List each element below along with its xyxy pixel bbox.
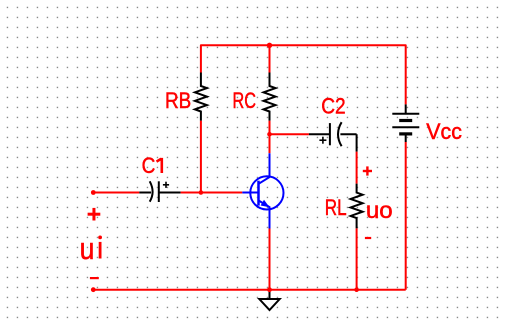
resistor RB — [195, 73, 207, 121]
wire bottom rail — [93, 289, 405, 291]
resistor RL — [351, 184, 363, 229]
svg-text:RC: RC — [233, 88, 257, 113]
svg-text:RL: RL — [325, 195, 347, 220]
wire RC bottom to collector node — [269, 121, 271, 135]
svg-text:C2: C2 — [321, 94, 345, 119]
wire C2 output to RL top — [356, 152, 358, 184]
transistor Q1 — [242, 153, 283, 228]
wire input terminal to C1 — [93, 192, 139, 194]
battery Vcc — [392, 104, 419, 142]
node top rail RC junction — [267, 43, 272, 48]
node input terminal — [91, 190, 96, 195]
svg-text:C: C — [142, 153, 156, 178]
wire collector node to C2 — [270, 133, 309, 135]
svg-text:u: u — [80, 231, 95, 266]
svg-text:Vcc: Vcc — [426, 119, 462, 144]
label - input polarity — [90, 277, 99, 279]
node bottom left terminal — [91, 287, 96, 292]
node base junction — [199, 190, 204, 195]
label - output polarity — [365, 237, 371, 239]
label + input polarity — [88, 208, 101, 221]
capacitor C1 — [139, 181, 180, 202]
node collector junction — [267, 132, 272, 137]
capacitor C2 — [309, 122, 357, 152]
node emitter ground junction — [267, 287, 272, 292]
wire RB bottom to base node — [200, 121, 202, 193]
node RL bottom junction — [354, 287, 359, 292]
svg-text:RB: RB — [165, 88, 191, 113]
wire emitter to ground rail — [269, 229, 271, 290]
label + output polarity — [363, 166, 372, 175]
resistor RC — [264, 73, 276, 121]
wire C1 to base node and transistor base — [181, 192, 243, 194]
ground — [259, 290, 279, 310]
svg-text:uo: uo — [366, 197, 393, 223]
wire battery bottom to ground rail — [405, 142, 407, 290]
wire collector node to transistor collector — [269, 134, 271, 153]
wire top rail with RB drop and Vcc drop — [201, 45, 406, 104]
wire RL bottom to ground rail — [356, 228, 358, 289]
wire RC top branch — [269, 45, 271, 72]
